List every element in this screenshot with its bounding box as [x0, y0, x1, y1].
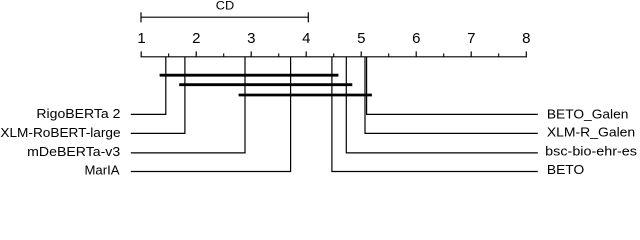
- label bsc-bio-ehr-es: [545, 144, 637, 159]
- minor ticks: [169, 53, 499, 56]
- svg-text:CD: CD: [216, 0, 235, 13]
- svg-text:XLM-RoBERT-large: XLM-RoBERT-large: [0, 125, 120, 140]
- svg-text:bsc-bio-ehr-es: bsc-bio-ehr-es: [545, 144, 637, 159]
- svg-text:BETO: BETO: [547, 162, 584, 176]
- method line MarIA: [131, 57, 291, 172]
- label MarIA: [85, 163, 120, 178]
- svg-text:MarIA: MarIA: [85, 163, 120, 176]
- CD label: [216, 0, 235, 13]
- svg-text:6: 6: [412, 30, 420, 47]
- method line BETO_Galen: [367, 57, 538, 115]
- svg-text:XLM-R_Galen: XLM-R_Galen: [547, 125, 635, 140]
- label BETO: [547, 162, 584, 177]
- label mDeBERTa-v3: [27, 144, 120, 159]
- method line bsc-bio-ehr-es: [346, 57, 538, 153]
- label XLM-R_Galen: [547, 125, 635, 140]
- clique bar 1: [160, 74, 339, 77]
- method line XLM-R_Galen: [365, 57, 538, 134]
- label XLM-RoBERT-large: [0, 125, 120, 140]
- CD interval bracket: [141, 12, 308, 22]
- label RigoBERTa 2: [36, 106, 120, 121]
- axis line: [141, 56, 527, 58]
- svg-text:7: 7: [467, 30, 475, 47]
- clique bar 2: [179, 83, 352, 86]
- svg-text:5: 5: [357, 30, 365, 47]
- svg-text:2: 2: [192, 30, 200, 47]
- svg-text:mDeBERTa-v3: mDeBERTa-v3: [27, 144, 120, 159]
- major ticks: [141, 51, 526, 56]
- label BETO_Galen: [547, 106, 629, 121]
- svg-text:4: 4: [302, 30, 310, 47]
- method line RigoBERTa 2: [131, 57, 166, 115]
- svg-text:BETO_Galen: BETO_Galen: [547, 106, 629, 121]
- svg-text:RigoBERTa 2: RigoBERTa 2: [36, 106, 120, 121]
- svg-text:8: 8: [522, 30, 530, 47]
- method line BETO: [332, 57, 538, 172]
- svg-text:3: 3: [247, 30, 255, 47]
- axis numbers 1-8: [137, 30, 530, 47]
- svg-text:1: 1: [137, 30, 145, 47]
- method line mDeBERTa-v3: [131, 57, 245, 153]
- clique bar 3: [239, 94, 372, 97]
- method line XLM-RoBERT-large: [131, 57, 185, 134]
